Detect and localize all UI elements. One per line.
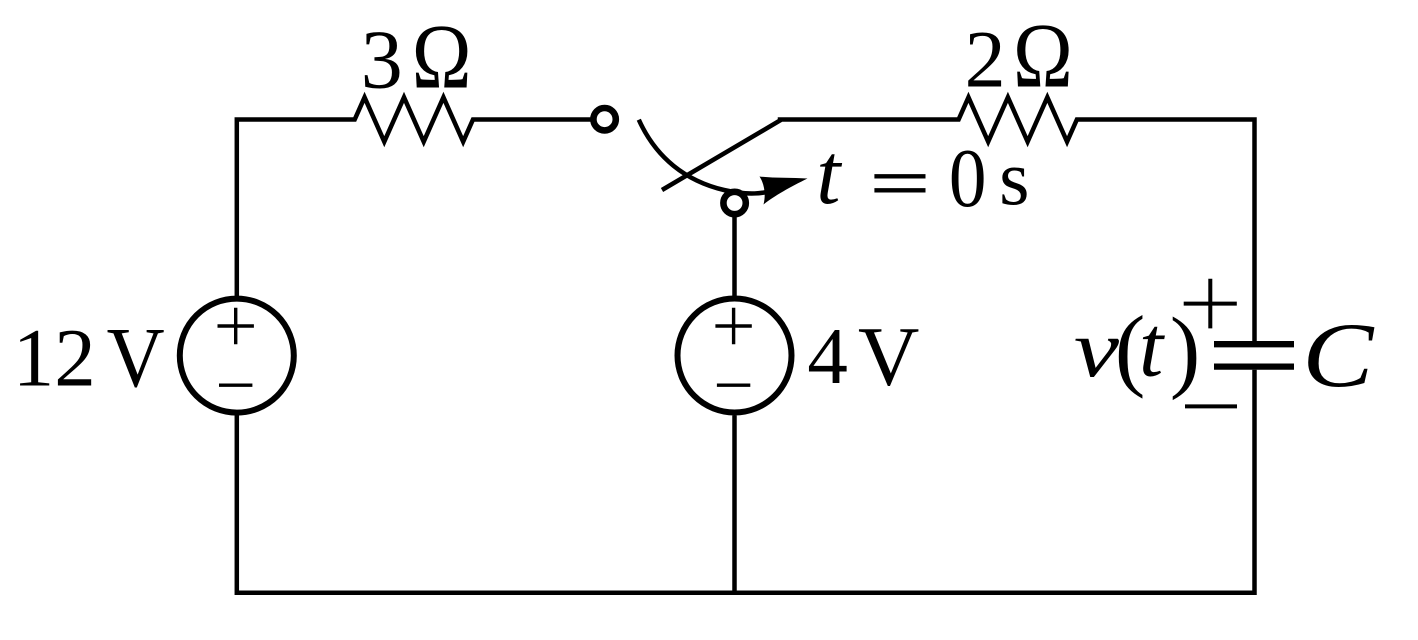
svg-text:V: V <box>858 310 919 404</box>
svg-text:C: C <box>1302 304 1375 406</box>
wire top-left with resistor R1 zigzag <box>237 97 591 296</box>
svg-text:V: V <box>107 309 165 405</box>
label v(t) <box>1074 297 1201 400</box>
svg-text:t: t <box>816 125 842 222</box>
capacitor plus polarity mark <box>1184 279 1237 329</box>
wire bottom loop <box>237 370 1255 593</box>
capacitor minus polarity mark <box>1185 404 1237 408</box>
V1 minus sign <box>219 384 252 387</box>
V2 plus sign <box>715 308 751 344</box>
label 3 ohm <box>361 6 472 108</box>
voltage source V1 12V circle <box>180 299 294 413</box>
svg-text:Ω: Ω <box>412 6 472 108</box>
wire middle vertical lower <box>732 416 737 593</box>
switch arc arrow <box>639 120 778 194</box>
switch terminal node bottom (open circle) <box>723 192 745 214</box>
label 2 ohm <box>965 4 1073 106</box>
V1 plus sign <box>218 308 254 344</box>
svg-text:12: 12 <box>13 312 96 404</box>
switch blade and top-right wire with resistor R2 zigzag <box>662 97 1255 341</box>
svg-text:s: s <box>999 134 1029 221</box>
svg-text:Ω: Ω <box>1013 4 1073 106</box>
capacitor C bottom plate <box>1214 363 1294 369</box>
svg-text:4: 4 <box>807 311 848 401</box>
V2 minus sign <box>717 384 750 387</box>
svg-text:2: 2 <box>965 13 1006 104</box>
svg-text:0: 0 <box>949 132 987 225</box>
svg-text:): ) <box>1170 298 1201 400</box>
switch terminal node left (open circle) <box>593 108 615 130</box>
wire middle vertical upper <box>732 217 737 297</box>
svg-text:v: v <box>1074 303 1120 394</box>
switch arrowhead <box>760 177 808 205</box>
svg-text:3: 3 <box>361 14 403 107</box>
label 4 V <box>807 310 919 404</box>
label 12 V <box>13 309 165 405</box>
label t = 0 s <box>816 125 1029 225</box>
capacitor C top plate <box>1214 341 1294 347</box>
svg-text:t: t <box>1139 298 1165 395</box>
voltage source V2 4V circle <box>678 299 792 413</box>
